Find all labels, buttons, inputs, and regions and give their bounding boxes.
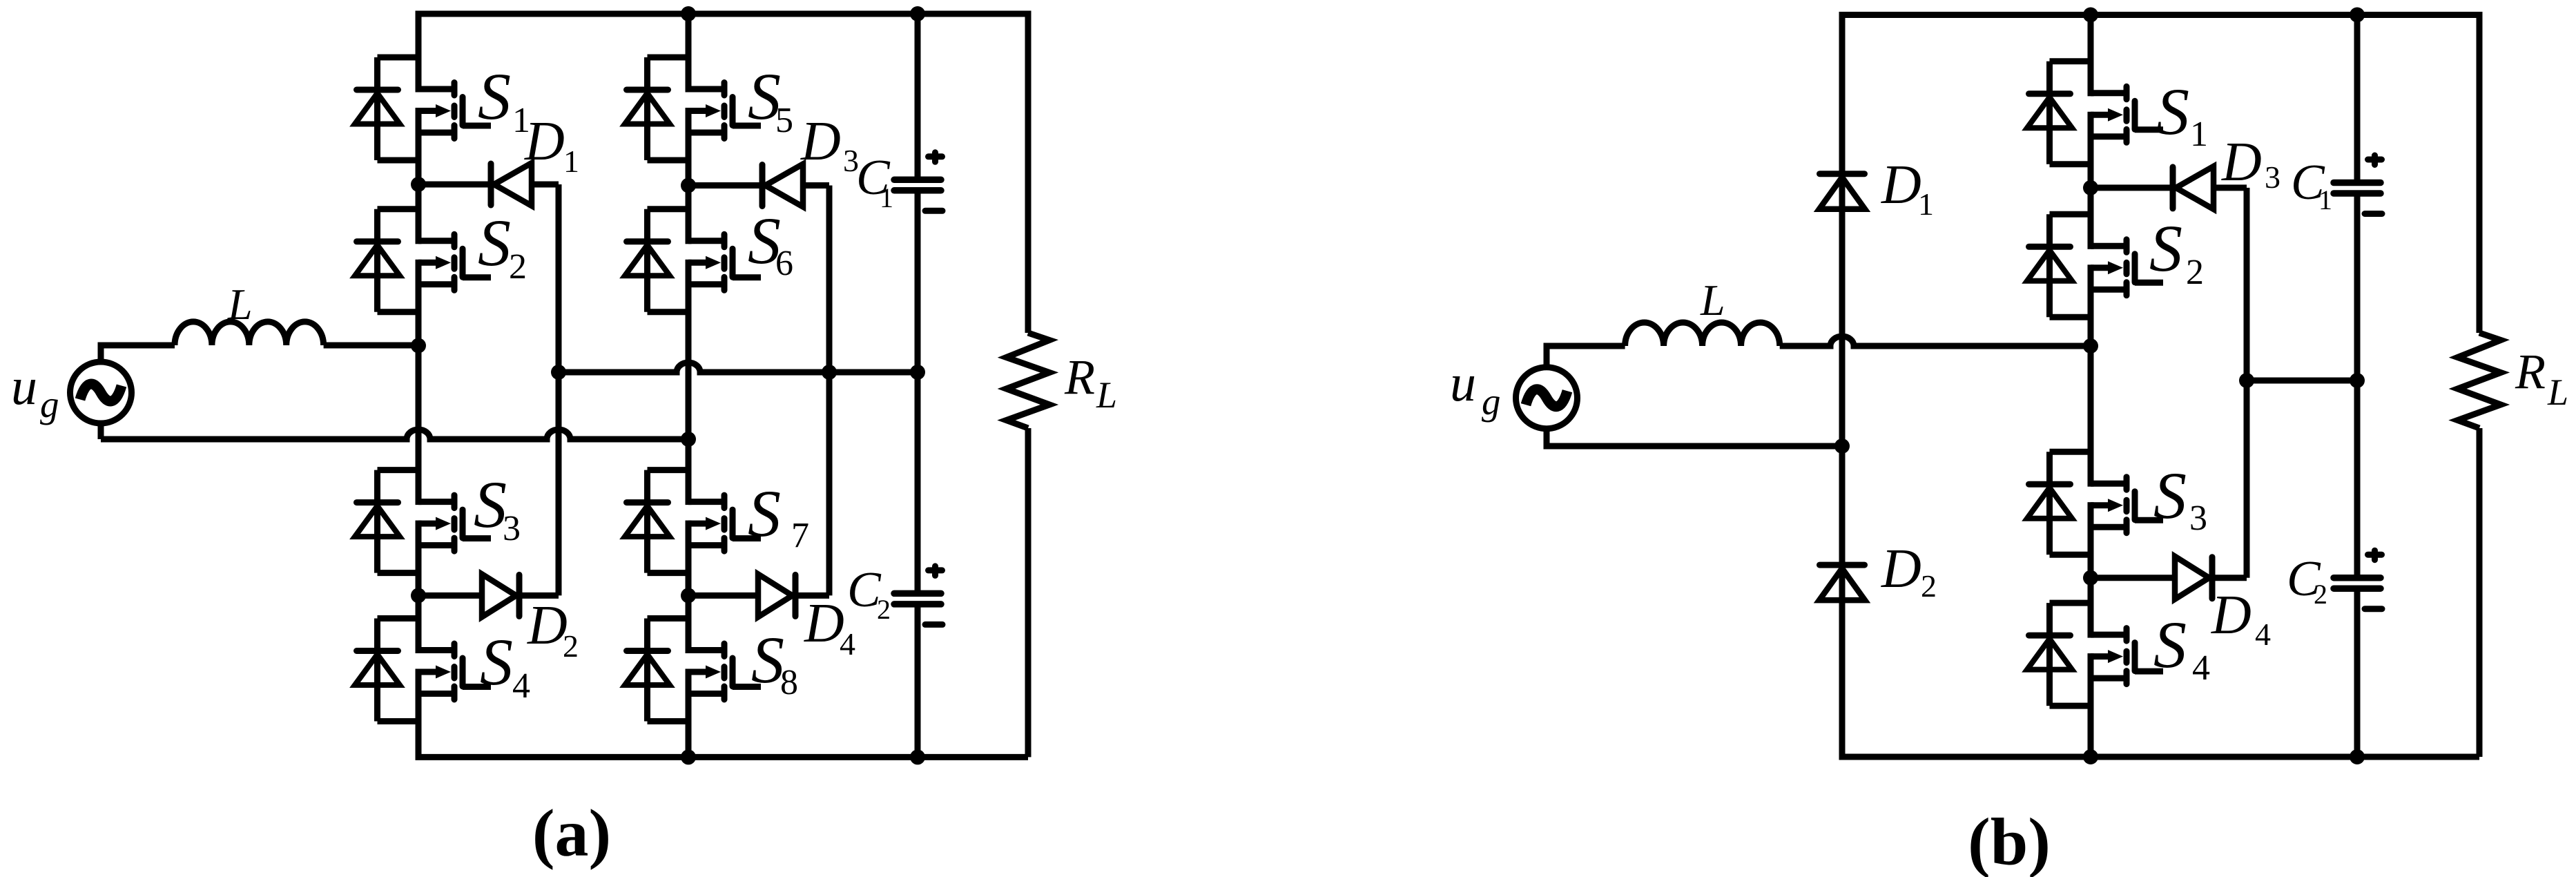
svg-text:S: S [2153, 459, 2187, 532]
svg-text:5: 5 [775, 101, 793, 140]
svg-text:1: 1 [563, 144, 579, 179]
svg-text:3: 3 [503, 509, 521, 548]
svg-text:S: S [751, 623, 784, 697]
svg-text:2: 2 [563, 628, 579, 664]
svg-text:3: 3 [2265, 160, 2280, 195]
svg-text:(b): (b) [1968, 805, 2051, 877]
svg-text:S: S [478, 206, 511, 280]
svg-text:1: 1 [1918, 186, 1934, 222]
svg-text:4: 4 [512, 666, 530, 706]
svg-text:S: S [480, 625, 513, 699]
svg-text:S: S [2153, 608, 2187, 682]
svg-text:8: 8 [780, 663, 798, 702]
svg-text:u: u [11, 358, 37, 416]
svg-text:D: D [800, 111, 841, 172]
svg-text:2: 2 [2186, 253, 2204, 292]
svg-text:L: L [227, 280, 253, 329]
svg-text:g: g [40, 383, 59, 425]
svg-text:L: L [1700, 276, 1725, 325]
svg-text:D: D [1881, 539, 1921, 599]
svg-text:u: u [1450, 354, 1476, 412]
svg-text:S: S [748, 476, 781, 550]
svg-text:L: L [2547, 372, 2568, 413]
svg-text:D: D [527, 595, 568, 656]
svg-text:S: S [2149, 211, 2182, 285]
svg-text:R: R [1064, 349, 1095, 405]
svg-text:2: 2 [509, 247, 527, 287]
svg-text:D: D [1881, 155, 1921, 215]
svg-text:D: D [804, 593, 844, 654]
svg-text:1: 1 [2318, 184, 2332, 215]
svg-text:7: 7 [791, 516, 809, 555]
svg-text:2: 2 [1921, 568, 1937, 604]
svg-text:1: 1 [880, 182, 893, 213]
svg-text:g: g [1482, 380, 1501, 423]
svg-text:4: 4 [2192, 648, 2210, 688]
svg-text:S: S [478, 59, 511, 133]
svg-text:D: D [524, 111, 565, 172]
svg-text:(a): (a) [532, 796, 611, 871]
svg-text:D: D [2221, 132, 2262, 193]
svg-text:L: L [1096, 374, 1117, 416]
svg-text:2: 2 [2314, 579, 2327, 610]
svg-text:2: 2 [877, 594, 891, 625]
svg-text:3: 3 [2189, 499, 2207, 538]
svg-text:S: S [474, 468, 507, 541]
svg-text:R: R [2515, 344, 2546, 399]
svg-text:4: 4 [840, 626, 855, 662]
svg-text:D: D [2211, 585, 2251, 646]
svg-text:S: S [2156, 75, 2189, 148]
svg-text:4: 4 [2255, 617, 2271, 652]
svg-text:1: 1 [2190, 115, 2208, 154]
svg-text:6: 6 [775, 244, 793, 283]
